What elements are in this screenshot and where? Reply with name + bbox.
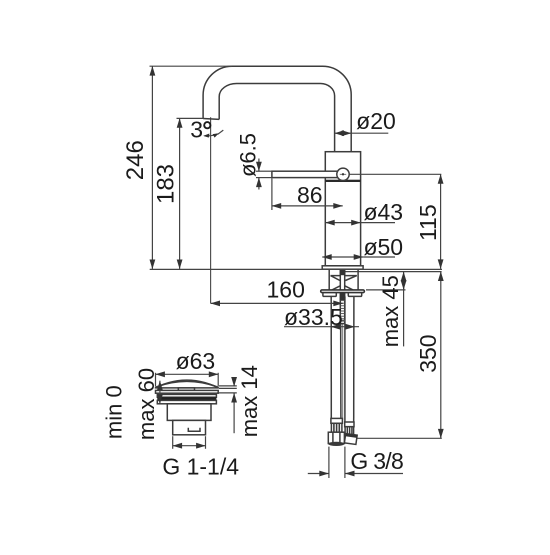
svg-text:350: 350 xyxy=(415,334,441,372)
extension lines G1-1/4 xyxy=(172,436,174,449)
rod top dark xyxy=(340,270,346,275)
horseshoe washer bar xyxy=(321,290,365,293)
dimension o20 arrows xyxy=(335,132,352,134)
right hose ferrule xyxy=(345,422,354,427)
left nut facets xyxy=(332,432,334,443)
drain notch xyxy=(188,428,200,432)
lever bar xyxy=(272,171,339,177)
washer right lip xyxy=(348,293,361,297)
drain gasket dark xyxy=(157,397,216,400)
extension lines max14 xyxy=(219,385,237,387)
angle 3 degree reference line xyxy=(218,130,224,134)
left hex nut G3/8 xyxy=(328,432,344,443)
degree symbol of 3deg xyxy=(204,122,210,128)
extension lines o63 xyxy=(155,373,157,387)
right hose inner edge xyxy=(344,296,346,422)
dimension 86 line xyxy=(272,205,343,207)
o33.5 left arrow xyxy=(331,326,338,328)
svg-text:G 1-1/4: G 1-1/4 xyxy=(162,453,239,479)
svg-text:ø63: ø63 xyxy=(176,348,216,374)
dimension o63 line xyxy=(156,373,219,375)
dimension G3/8 left arrow xyxy=(308,473,329,475)
svg-text:3: 3 xyxy=(190,117,203,143)
shank funnel left side xyxy=(331,276,340,281)
dimension 246 line xyxy=(151,66,153,269)
counter underside line xyxy=(344,271,441,273)
dimension 350 line xyxy=(440,272,442,439)
dimension 115 line xyxy=(440,174,442,268)
washer left lip xyxy=(323,293,336,297)
drain cap rim inner line xyxy=(156,381,217,387)
spout outlet end face xyxy=(203,118,219,121)
leader o20 xyxy=(351,132,388,134)
left collar ribs xyxy=(334,424,339,432)
dimension G3/8 right arrow xyxy=(345,473,403,475)
drain plate3 xyxy=(157,400,216,403)
svg-text:max 14: max 14 xyxy=(237,365,262,437)
left nut bottom ellipse xyxy=(328,442,344,446)
rod end dark band xyxy=(340,320,344,322)
svg-text:183: 183 xyxy=(152,164,179,204)
drain body xyxy=(167,404,211,421)
dimension 183 line xyxy=(179,118,181,269)
dimension o43 arrows xyxy=(325,222,360,224)
drain plate2 xyxy=(157,394,216,397)
svg-text:G 3/8: G 3/8 xyxy=(350,448,403,474)
right collar ribs xyxy=(347,427,352,434)
right angled nut xyxy=(344,434,357,445)
wire: spout outlet centerline xyxy=(210,117,212,303)
shank right outer edge xyxy=(357,270,359,290)
extension line lever tip (86) xyxy=(271,179,273,211)
svg-text:115: 115 xyxy=(415,204,441,241)
svg-text:ø20: ø20 xyxy=(356,108,396,134)
rod foot flare left xyxy=(332,286,340,290)
extension line washer to max45 xyxy=(366,289,406,291)
svg-text:ø50: ø50 xyxy=(363,234,403,260)
spout inner contour xyxy=(219,84,334,152)
svg-text:max 60: max 60 xyxy=(134,368,159,440)
pivot center tick xyxy=(340,173,346,175)
spout outer contour xyxy=(203,66,351,152)
dimension o33.5 line xyxy=(284,326,359,328)
svg-text:ø33.5: ø33.5 xyxy=(284,304,343,330)
shank funnel top xyxy=(331,275,357,277)
drain cap dome xyxy=(156,380,219,388)
dimension max45 upper arrow xyxy=(403,272,405,347)
angle 3 degree arc arrow xyxy=(205,134,219,136)
base plate xyxy=(322,266,363,269)
svg-text:86: 86 xyxy=(297,182,323,208)
dimension o50 arrows xyxy=(322,256,363,258)
left hose outer edge xyxy=(330,296,332,419)
pivot center dot xyxy=(342,173,344,175)
left hose ferrule xyxy=(331,418,343,423)
left hose ribbed collar xyxy=(331,423,342,432)
svg-text:ø43: ø43 xyxy=(363,199,403,225)
dimension G1-1/4 line xyxy=(173,445,206,447)
threaded rod xyxy=(340,271,344,324)
left hose inner edge xyxy=(340,296,342,419)
leader o50 xyxy=(363,256,395,258)
pivot circle xyxy=(337,168,349,180)
right hose ribbed collar xyxy=(345,427,354,435)
drain cap stem xyxy=(178,388,194,391)
faucet body xyxy=(325,152,360,266)
extension lines o6.5 xyxy=(256,170,272,172)
shank funnel right side xyxy=(345,276,356,281)
dimension max60 double arrow xyxy=(159,381,161,404)
mounting nut dark xyxy=(340,293,345,300)
extension line hose end to 350 xyxy=(357,437,442,439)
svg-text:max 45: max 45 xyxy=(378,275,403,347)
shank left outer edge xyxy=(328,270,330,290)
dimension max45 lower arrow xyxy=(403,282,405,290)
o33.5 right arrow xyxy=(347,326,355,328)
svg-text:min 0: min 0 xyxy=(102,385,127,439)
extension line circle center to 115 xyxy=(350,173,442,175)
rod foot flare right xyxy=(345,286,353,290)
rod thread ticks xyxy=(340,298,344,319)
drain flange xyxy=(156,390,219,393)
body joint dark band xyxy=(325,180,360,182)
dimension 160 line xyxy=(211,302,343,304)
svg-text:246: 246 xyxy=(122,140,149,180)
leader o43 xyxy=(361,222,395,224)
dimension max14 lower arrow xyxy=(233,393,235,433)
countertop line xyxy=(150,268,442,270)
wire: faucet body centerline xyxy=(342,181,344,420)
svg-text:160: 160 xyxy=(267,276,305,302)
drain thread section xyxy=(173,420,206,434)
extension lines G3/8 xyxy=(328,447,330,478)
dimension max14 upper arrow xyxy=(233,378,235,386)
svg-text:ø6.5: ø6.5 xyxy=(235,133,260,177)
extension line 183 xyxy=(177,117,204,119)
extension line top (246) xyxy=(150,65,233,67)
right hose outer edge xyxy=(353,296,355,422)
dimension o6.5 arrows xyxy=(258,159,260,172)
